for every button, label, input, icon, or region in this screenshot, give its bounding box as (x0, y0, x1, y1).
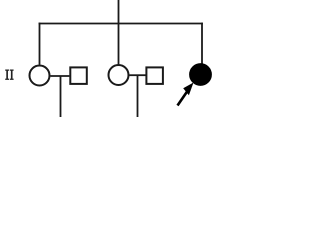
wire: middle marriage line (130, 74, 146, 76)
proband arrow shaft (178, 90, 189, 106)
male II-2 square (70, 67, 87, 84)
male II-4 square (146, 67, 163, 84)
affected female II-5 filled circle (proband) (190, 64, 212, 86)
proband arrow head (183, 83, 193, 96)
wire: right sib drop line (201, 23, 203, 64)
generation label II (drawn as serif glyph paths) (5, 70, 13, 80)
wire: left marriage line (51, 75, 70, 77)
wire: descent stem from generation I (118, 0, 120, 65)
wire: left sib drop line (39, 23, 41, 65)
female II-3 circle (109, 65, 129, 85)
wire: left offspring line (60, 76, 62, 117)
wire: middle offspring line (137, 75, 139, 117)
wire: sibship horizontal line (39, 23, 203, 25)
female II-1 circle (30, 66, 50, 86)
